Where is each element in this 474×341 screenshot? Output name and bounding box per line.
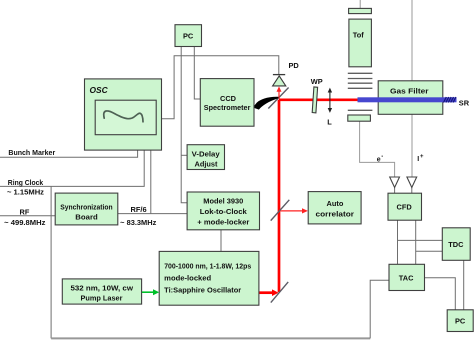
box Ti:Sapphire Oscillator (159, 251, 259, 305)
box TDC (442, 228, 470, 260)
wire detector stubs to CFD (395, 188, 412, 194)
svg-text:TAC: TAC (399, 273, 414, 282)
svg-text:Auto: Auto (327, 199, 344, 208)
laser beam pick-off arrow to autocorrelator (281, 208, 308, 213)
laser beam Ti:Sapphire output arrow (259, 289, 279, 296)
box Tof (349, 19, 372, 67)
box OSC oscilloscope (85, 79, 162, 150)
svg-text:L: L (327, 118, 332, 127)
svg-text:I: I (417, 156, 419, 163)
svg-text:OSC: OSC (90, 85, 109, 95)
wire RF input line (0, 215, 55, 217)
box Gas Filter (378, 81, 443, 115)
label RF/6 (131, 205, 147, 214)
svg-text:Board: Board (75, 213, 98, 222)
wire RF/6 line sync board to Model 3930 (118, 213, 187, 215)
box PC (control computer) (175, 25, 202, 47)
wire chamber support line from top to I+ detector (411, 0, 413, 177)
box TAC (389, 264, 425, 290)
mirror M2 beamsplitter to autocorrelator (271, 200, 290, 221)
svg-text:-: - (381, 154, 383, 160)
green pump arrow (142, 289, 159, 295)
laser beam red horizontal to chamber (279, 99, 358, 102)
box V-Delay Adjust (187, 145, 224, 170)
svg-text:WP: WP (311, 77, 323, 86)
svg-text:~ 83.3MHz: ~ 83.3MHz (120, 218, 156, 227)
svg-text:+: + (420, 154, 424, 160)
label ~83.3MHz (120, 218, 156, 227)
wire PC to CCD spectrometer (194, 47, 200, 99)
box CCD Spectrometer (200, 79, 254, 127)
wire PC to V-Delay and Model 3930 (181, 47, 187, 203)
svg-text:532 nm, 10W, cw: 532 nm, 10W, cw (71, 284, 134, 293)
laser beam red vertical (278, 100, 281, 292)
box CFD (388, 193, 422, 220)
svg-text:Bunch Marker: Bunch Marker (8, 148, 55, 157)
detector triangle e- (390, 177, 400, 188)
svg-text:Ring Clock: Ring Clock (8, 178, 44, 187)
repeller grid line (348, 109, 373, 111)
svg-text:CCD: CCD (220, 94, 237, 103)
wire TAC to PC (425, 278, 456, 310)
wire OSC screen to PD (156, 56, 279, 119)
wire Tof top lead (359, 0, 361, 8)
svg-text:V-Delay: V-Delay (192, 149, 221, 158)
svg-text:PC: PC (455, 317, 466, 326)
label ~1.15MHz (7, 188, 44, 197)
svg-text:Pump Laser: Pump Laser (81, 294, 123, 303)
wire Ring Clock line (0, 135, 144, 187)
waveplate WP (312, 87, 317, 113)
wire TDC to PC (463, 260, 465, 310)
wire Bunch Marker line (0, 135, 138, 158)
lens L double arrow (328, 88, 332, 113)
label I+ (417, 154, 424, 163)
box Model 3930 Lok-to-Clock (187, 192, 259, 230)
wire CFD outputs to TDC (398, 240, 443, 251)
box 532nm Pump Laser (62, 279, 141, 304)
mirror M3 beamsplitter at PD (268, 88, 288, 109)
svg-text:mode-locked: mode-locked (164, 273, 211, 282)
flip mirror arrow to CCD (253, 97, 279, 110)
svg-text:CFD: CFD (397, 203, 413, 212)
svg-text:Spectrometer: Spectrometer (204, 103, 251, 112)
wire Ring Clock to TAC via bottom (51, 186, 389, 338)
box PC bottom right (447, 310, 473, 332)
svg-text:~ 499.8MHz: ~ 499.8MHz (4, 218, 46, 227)
svg-text:Adjust: Adjust (195, 159, 219, 168)
svg-text:Ti:Sapphire Oscillator: Ti:Sapphire Oscillator (164, 286, 241, 295)
svg-text:PD: PD (289, 61, 300, 70)
label L (327, 118, 332, 127)
label WP (311, 77, 323, 86)
svg-text:SR: SR (459, 99, 470, 108)
wire CFD outputs to TAC (398, 220, 416, 264)
svg-text:correlator: correlator (316, 209, 355, 218)
svg-text:e: e (377, 156, 381, 163)
label e- (377, 154, 383, 164)
extraction grids (348, 73, 373, 88)
svg-text:Lok-to-Clock: Lok-to-Clock (200, 207, 248, 216)
repeller plate (348, 115, 371, 121)
svg-text:700-1000 nm, 1-1.8W, 12ps: 700-1000 nm, 1-1.8W, 12ps (164, 261, 251, 270)
label PD (289, 61, 300, 70)
svg-text:PC: PC (183, 32, 194, 41)
svg-text:RF/6: RF/6 (131, 205, 147, 214)
wire e- detector lead (360, 121, 395, 177)
Tof top plate (349, 8, 372, 13)
mirror M1 bottom (271, 282, 288, 303)
label Bunch Marker (8, 148, 55, 157)
svg-text:Model 3930: Model 3930 (203, 197, 243, 206)
box Synchronization Board (55, 193, 118, 225)
svg-text:+ mode-locker: + mode-locker (197, 218, 249, 227)
wire OSC screen to RF/6 line (150, 135, 152, 214)
label RF (20, 207, 30, 216)
svg-text:Gas Filter: Gas Filter (390, 86, 429, 95)
svg-text:Tof: Tof (353, 31, 364, 40)
label SR (459, 99, 470, 108)
detector triangle I+ (407, 177, 417, 188)
label Ring Clock (8, 178, 44, 187)
SR blue beam (358, 97, 457, 103)
label ~499.8MHz (4, 218, 46, 227)
svg-text:Synchronization: Synchronization (60, 203, 113, 212)
photodiode PD (273, 75, 286, 86)
svg-text:RF: RF (20, 207, 30, 216)
laser beam pick-off arrow to PD (277, 86, 282, 98)
svg-text:~ 1.15MHz: ~ 1.15MHz (7, 188, 44, 197)
wire Model 3930 to Ti:Sapphire (220, 230, 222, 252)
box Auto correlator (308, 192, 361, 224)
svg-text:TDC: TDC (448, 240, 464, 249)
